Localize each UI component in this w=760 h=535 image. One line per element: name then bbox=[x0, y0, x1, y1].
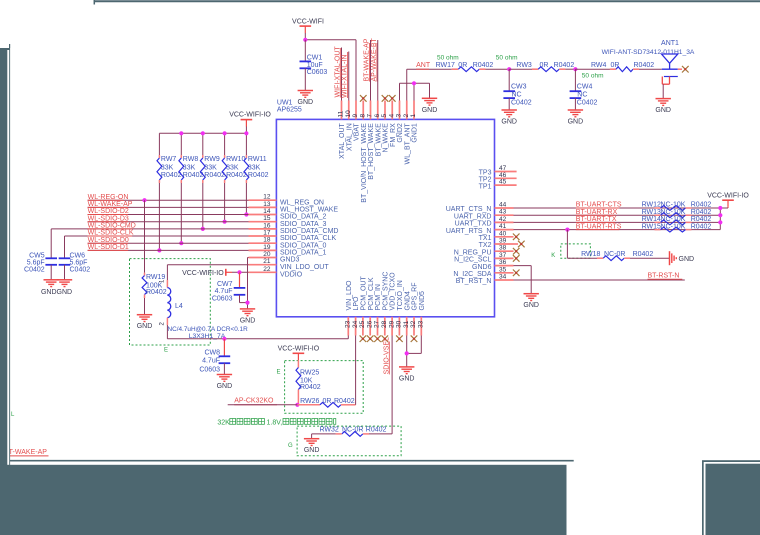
svg-text:GND1: GND1 bbox=[412, 123, 419, 143]
pin 10 XTAL_IN bbox=[345, 101, 353, 152]
svg-text:GNDGND: GNDGND bbox=[41, 289, 72, 296]
svg-text:RW25: RW25 bbox=[300, 369, 319, 376]
capacitor CW4 bbox=[570, 69, 598, 110]
ground RW32 bbox=[304, 439, 320, 455]
svg-text:0R: 0R bbox=[611, 62, 620, 69]
resistor RW4 bbox=[575, 62, 654, 72]
svg-text:RW26: RW26 bbox=[300, 398, 319, 405]
pin 36 GND6 bbox=[472, 259, 513, 271]
resistor RW10 33K pull-up bbox=[222, 155, 247, 224]
pin 9 VBAT bbox=[352, 101, 360, 141]
svg-text:13: 13 bbox=[263, 201, 271, 208]
label 50 ohm b bbox=[496, 54, 518, 61]
svg-text:N_I2C_SDA: N_I2C_SDA bbox=[453, 271, 491, 278]
keepout box E bbox=[130, 259, 211, 354]
svg-text:PCM_CLK: PCM_CLK bbox=[368, 277, 375, 310]
svg-text:50 ohm: 50 ohm bbox=[582, 72, 604, 79]
wire GND1 pin1 bbox=[413, 83, 415, 100]
svg-text:VCC-WIFI-IO: VCC-WIFI-IO bbox=[707, 193, 749, 200]
junction RW25/RW26 bbox=[295, 403, 299, 407]
svg-text:9: 9 bbox=[352, 114, 359, 118]
svg-text:4.7uF: 4.7uF bbox=[215, 288, 233, 295]
junction RTS branch bbox=[565, 228, 569, 232]
IC reference designator UW1 bbox=[277, 100, 293, 107]
antenna ANT1 symbol bbox=[662, 54, 678, 69]
svg-text:WL_BT_ANT: WL_BT_ANT bbox=[404, 122, 411, 164]
capacitor CW3 bbox=[503, 69, 531, 110]
svg-text:5.6pF: 5.6pF bbox=[27, 259, 45, 266]
svg-text:RW10: RW10 bbox=[226, 156, 245, 163]
svg-text:BT_VIO/N_HOST_WAKE: BT_VIO/N_HOST_WAKE bbox=[361, 123, 368, 203]
resistor RW8 33K pull-up bbox=[179, 155, 204, 245]
capacitor CW6 bbox=[59, 236, 91, 280]
svg-text:PCM_IN: PCM_IN bbox=[375, 284, 382, 310]
pin 28 PCM_SYNC bbox=[381, 272, 389, 342]
wire net WL-SDIO-CMD bbox=[51, 223, 248, 230]
wire VDDIO bbox=[232, 271, 249, 273]
pin 38 N_REG_PU bbox=[454, 245, 520, 257]
label GNDGND bbox=[41, 289, 72, 296]
svg-text:R0402: R0402 bbox=[633, 251, 654, 258]
pin 27 PCM_IN bbox=[374, 284, 382, 342]
svg-text:43: 43 bbox=[499, 209, 507, 216]
ground RW18 sideways bbox=[670, 251, 695, 265]
wire net WL-SDIO-D1 bbox=[88, 244, 249, 251]
svg-text:SDIO_DATA_CLK: SDIO_DATA_CLK bbox=[280, 235, 336, 242]
svg-text:L4: L4 bbox=[175, 303, 183, 310]
junction bus RW9 bbox=[201, 131, 205, 135]
svg-text:SDIO_DATA_0: SDIO_DATA_0 bbox=[280, 242, 327, 249]
keepout box G bbox=[288, 426, 401, 456]
svg-text:C0402: C0402 bbox=[511, 100, 532, 107]
pin 21 VIN_LDO_OUT bbox=[249, 258, 330, 271]
wire net WL-SDIO-D2 bbox=[88, 208, 249, 215]
svg-text:33K: 33K bbox=[248, 165, 261, 172]
antenna ANT1 value bbox=[602, 49, 695, 56]
svg-text:UART_RTS_N: UART_RTS_N bbox=[446, 228, 492, 235]
svg-text:R0402: R0402 bbox=[300, 384, 321, 391]
svg-text:N_I2C_SCL: N_I2C_SCL bbox=[454, 257, 491, 264]
svg-text:1: 1 bbox=[410, 114, 417, 118]
wire WL_BT_ANT pin2 bbox=[407, 69, 452, 100]
wire net WL-SDIO-CLK bbox=[65, 230, 249, 237]
net label AP-WAKE-BT bbox=[371, 37, 378, 81]
wire RW17 to node bbox=[486, 68, 510, 70]
ground ANT1 bbox=[655, 99, 671, 115]
pin 2 WL_BT_ANT bbox=[403, 101, 411, 165]
wire net WL-WAKE-AP bbox=[88, 201, 249, 208]
svg-text:R0402: R0402 bbox=[226, 172, 247, 179]
pin 25 PCM_OUT bbox=[359, 276, 367, 342]
svg-text:GND6: GND6 bbox=[472, 264, 492, 271]
svg-text:33: 33 bbox=[418, 320, 425, 328]
svg-text:39: 39 bbox=[499, 238, 507, 245]
svg-text:BT_HOST_WAKE: BT_HOST_WAKE bbox=[368, 123, 375, 180]
svg-text:VIN_LDO_OUT: VIN_LDO_OUT bbox=[280, 264, 329, 271]
svg-text:GND: GND bbox=[568, 119, 584, 126]
svg-text:RW18: RW18 bbox=[581, 251, 600, 258]
svg-text:R0402: R0402 bbox=[554, 62, 575, 69]
junction GND4/5 bbox=[405, 351, 409, 355]
label 50 ohm a bbox=[437, 54, 459, 61]
capacitor CW5 bbox=[24, 229, 57, 280]
svg-text:C0402: C0402 bbox=[24, 266, 45, 273]
svg-text:28: 28 bbox=[381, 320, 388, 328]
pin 46 TP2 bbox=[479, 172, 517, 184]
pin 42 UART_TXD bbox=[455, 216, 514, 228]
wire VCC-WIFI to VBAT bbox=[305, 33, 356, 40]
wire AP-CK32KO bbox=[228, 404, 298, 406]
svg-text:TX1: TX1 bbox=[479, 235, 492, 242]
svg-text:R0402: R0402 bbox=[691, 216, 712, 223]
resistor RW7 33K pull-up bbox=[157, 155, 182, 252]
svg-text:C0402: C0402 bbox=[70, 266, 91, 273]
wire pullup bus bbox=[159, 127, 246, 156]
inductor L4 value bbox=[168, 326, 249, 333]
svg-text:LPO: LPO bbox=[353, 296, 360, 311]
wire VIN_LDO_OUT row bbox=[167, 264, 248, 266]
wire RW32 gnd bbox=[311, 434, 313, 439]
svg-text:WL_REG_ON: WL_REG_ON bbox=[280, 199, 324, 206]
svg-text:CW1: CW1 bbox=[307, 55, 323, 62]
svg-text:20: 20 bbox=[263, 251, 271, 258]
note 32K voltage warning bbox=[217, 419, 230, 426]
svg-text:C0603: C0603 bbox=[212, 295, 233, 302]
svg-text:35: 35 bbox=[499, 266, 507, 273]
svg-text:TX2: TX2 bbox=[479, 242, 492, 249]
wire net WL-REG-ON bbox=[88, 194, 249, 201]
pin 26 PCM_CLK bbox=[366, 277, 374, 342]
svg-text:50 ohm: 50 ohm bbox=[437, 54, 459, 61]
power flag VCC-WIFI-IO rw25 bbox=[278, 346, 320, 361]
svg-text:33K: 33K bbox=[183, 165, 196, 172]
wire antenna stub bbox=[678, 68, 682, 70]
no-connect antenna bbox=[682, 66, 689, 73]
power flag VCC-WIFI-IO vddio bbox=[182, 269, 232, 277]
svg-text:GND: GND bbox=[655, 107, 671, 114]
resistor RW19 100K bbox=[142, 200, 167, 315]
svg-text:RW8: RW8 bbox=[183, 156, 199, 163]
svg-text:UART_TXD: UART_TXD bbox=[455, 221, 492, 228]
pin 6 BT_WAKE bbox=[374, 101, 382, 157]
svg-text:R0402: R0402 bbox=[204, 172, 225, 179]
svg-text:BT_WAKE: BT_WAKE bbox=[375, 123, 382, 157]
svg-text:40: 40 bbox=[499, 230, 507, 237]
svg-text:C0603: C0603 bbox=[307, 69, 328, 76]
junction CW7 gnd bbox=[245, 301, 249, 305]
svg-text:E: E bbox=[277, 369, 281, 375]
svg-text:GND: GND bbox=[298, 99, 314, 106]
svg-text:VCC-WIFI-IO: VCC-WIFI-IO bbox=[229, 112, 271, 119]
wire LPO riser bbox=[355, 336, 357, 405]
svg-text:R0402: R0402 bbox=[691, 223, 712, 230]
pin 24 LPO bbox=[352, 296, 360, 336]
svg-text:18: 18 bbox=[263, 237, 271, 244]
pin 11 XTAL_OUT bbox=[338, 101, 346, 159]
pin 3 GND2 bbox=[396, 101, 404, 143]
svg-text:CW6: CW6 bbox=[70, 252, 86, 259]
pin 31 GND4 bbox=[403, 291, 411, 336]
svg-text:K: K bbox=[551, 253, 555, 259]
svg-text:TP1: TP1 bbox=[479, 183, 492, 190]
svg-text:15: 15 bbox=[263, 215, 271, 222]
svg-text:5.6pF: 5.6pF bbox=[70, 259, 88, 266]
svg-text:CW3: CW3 bbox=[511, 84, 527, 91]
ground RW19 bbox=[137, 315, 153, 331]
net label BT-RST-N bbox=[648, 273, 683, 280]
resistor RW26 0R bbox=[297, 398, 355, 407]
svg-text:37: 37 bbox=[499, 252, 507, 259]
resistor RW18 NC-0R bbox=[567, 230, 669, 261]
ground pins 31/33 bbox=[399, 367, 415, 383]
resistor RW11 33K pull-up bbox=[244, 155, 269, 217]
svg-text:VCC-WIFI-IO: VCC-WIFI-IO bbox=[182, 270, 224, 277]
power flag VCC-WIFI-IO bank bbox=[229, 112, 271, 127]
svg-text:GND: GND bbox=[422, 107, 438, 114]
junction GND1/GND2 bbox=[412, 81, 416, 85]
pin 22 VDDIO bbox=[249, 266, 303, 279]
svg-text:TCXO_IN: TCXO_IN bbox=[397, 280, 404, 310]
pin 17 SDIO_DATA_CLK bbox=[249, 230, 337, 243]
wire AP-WAKE-BT bbox=[377, 40, 379, 101]
pin 45 TP1 bbox=[479, 179, 517, 191]
svg-text:10: 10 bbox=[345, 110, 352, 118]
svg-text:21: 21 bbox=[263, 258, 271, 265]
svg-text:3: 3 bbox=[396, 114, 403, 118]
svg-text:33K: 33K bbox=[161, 165, 174, 172]
svg-text:PCM_SYNC: PCM_SYNC bbox=[382, 272, 389, 311]
pin 8 BT_VIO/N_HOST_WAKE bbox=[359, 95, 367, 203]
wire VBAT pin9 riser bbox=[355, 40, 357, 101]
svg-text:RW17: RW17 bbox=[436, 62, 455, 69]
IC value AP6255 bbox=[277, 107, 302, 114]
svg-text:32: 32 bbox=[410, 320, 417, 328]
keepout box E2 bbox=[277, 361, 364, 414]
junction uart rail 44 bbox=[718, 206, 722, 210]
junction uart rail 42 bbox=[718, 220, 722, 224]
svg-text:CW7: CW7 bbox=[217, 281, 233, 288]
svg-text:17: 17 bbox=[263, 230, 271, 237]
net label WIFI-XTAL-IN bbox=[342, 52, 349, 98]
svg-text:BT-WAKE-AP: BT-WAKE-AP bbox=[4, 449, 47, 456]
pin 37 N_I2C_SCL bbox=[454, 252, 519, 264]
pin 13 WL_HOST_WAKE bbox=[249, 201, 339, 214]
pin 20 GND3 bbox=[249, 251, 300, 264]
svg-text:RW3: RW3 bbox=[516, 62, 532, 69]
junction RW19 on WL-REG-ON bbox=[142, 198, 146, 202]
wire SDIO-VSEL bbox=[391, 336, 393, 434]
junction bus RW10 bbox=[223, 131, 227, 135]
ground CW3 bbox=[501, 110, 517, 126]
svg-text:ANT: ANT bbox=[416, 62, 431, 69]
wire net WL-SDIO-D3 bbox=[88, 215, 249, 222]
ground GND3/CW7 bbox=[240, 309, 256, 325]
resistor RW3 bbox=[509, 62, 574, 72]
net label SDIO-VSEL bbox=[383, 337, 390, 374]
svg-text:VDDIO: VDDIO bbox=[280, 272, 303, 279]
antenna ANT1 label bbox=[661, 40, 679, 47]
svg-text:R0402: R0402 bbox=[366, 427, 387, 434]
svg-text:R0402: R0402 bbox=[146, 289, 167, 296]
pin 16 SDIO_DATA_CMD bbox=[249, 222, 339, 235]
svg-text:N_REG_PU: N_REG_PU bbox=[454, 249, 492, 256]
note cjk part2 bbox=[283, 419, 336, 425]
wire GND3 drop bbox=[248, 258, 249, 309]
pin 44 UART_CTS_N bbox=[446, 202, 514, 214]
svg-text:VIN_LDO: VIN_LDO bbox=[346, 280, 353, 311]
svg-text:42: 42 bbox=[499, 216, 507, 223]
wire GND4/GND5 bbox=[407, 336, 422, 367]
svg-text:WIFI-ANT-SD73412-011H1_3A: WIFI-ANT-SD73412-011H1_3A bbox=[602, 49, 695, 56]
svg-text:SDIO_DATA_1: SDIO_DATA_1 bbox=[280, 250, 327, 257]
svg-text:0R: 0R bbox=[540, 62, 549, 69]
resistor RW14 NC-10K net BT-UART-TX bbox=[514, 216, 721, 225]
pin 14 SDIO_DATA_2 bbox=[249, 208, 327, 221]
svg-text:SDIO_DATA_3: SDIO_DATA_3 bbox=[280, 221, 327, 228]
svg-text:31: 31 bbox=[403, 320, 410, 328]
svg-text:C0603: C0603 bbox=[199, 366, 220, 373]
junction VDDIO bbox=[237, 270, 241, 274]
svg-text:SDIO_DATA_CMD: SDIO_DATA_CMD bbox=[280, 228, 338, 235]
junction VCC-WIFI node bbox=[303, 38, 307, 42]
svg-text:R0402: R0402 bbox=[473, 62, 494, 69]
resistor RW17 bbox=[436, 62, 494, 72]
resistor RW12 NC-10K net BT-UART-CTS bbox=[514, 202, 721, 211]
svg-text:12: 12 bbox=[263, 194, 271, 201]
svg-text:GND2: GND2 bbox=[397, 123, 404, 143]
svg-text:4: 4 bbox=[388, 114, 395, 118]
resistor RW15 NC-10K net BT-UART-RTS bbox=[514, 223, 721, 232]
wire WIFI-XTAL-OUT bbox=[341, 48, 343, 101]
power flag VCC-WIFI bbox=[292, 19, 324, 34]
capacitor CW1 bbox=[300, 40, 328, 91]
svg-text:24: 24 bbox=[352, 320, 359, 328]
svg-text:36: 36 bbox=[499, 259, 507, 266]
svg-text:N_WAKE: N_WAKE bbox=[383, 123, 390, 153]
svg-text:38: 38 bbox=[499, 245, 507, 252]
pin 5 N_WAKE bbox=[381, 95, 389, 152]
svg-text:2: 2 bbox=[403, 114, 410, 118]
resistor RW13 NC-10K net BT-UART-RX bbox=[514, 209, 721, 218]
junction CW4 node bbox=[573, 67, 577, 71]
svg-text:CW4: CW4 bbox=[577, 84, 593, 91]
svg-text:XTAL_OUT: XTAL_OUT bbox=[339, 122, 346, 158]
svg-text:25: 25 bbox=[359, 320, 366, 328]
capacitor CW8 bbox=[199, 339, 230, 375]
wire WIFI-XTAL-IN bbox=[348, 52, 350, 101]
pin 12 WL_REG_ON bbox=[249, 194, 324, 207]
pin 32 GPS_RF bbox=[410, 282, 418, 342]
svg-text:GPS_RF: GPS_RF bbox=[412, 282, 419, 310]
note 1.8V bbox=[267, 419, 283, 426]
svg-text:PCM_OUT: PCM_OUT bbox=[361, 276, 368, 311]
svg-text:XTAL_IN: XTAL_IN bbox=[346, 123, 353, 151]
net label ANT bbox=[416, 62, 431, 69]
power flag VCC-WIFI-IO uart bbox=[707, 193, 749, 207]
svg-text:CW5: CW5 bbox=[29, 252, 45, 259]
capacitor CW7 bbox=[212, 272, 248, 302]
svg-text:RW7: RW7 bbox=[161, 156, 177, 163]
ground pins 1-3 bbox=[422, 98, 438, 114]
pin 4 FM_RX bbox=[388, 95, 396, 147]
wire net WL-SDIO-D0 bbox=[88, 237, 249, 244]
svg-text:GND: GND bbox=[399, 375, 415, 382]
svg-text:GND: GND bbox=[137, 323, 153, 330]
svg-text:RW4: RW4 bbox=[591, 62, 607, 69]
pin 34 BT_RST_N bbox=[456, 274, 514, 286]
svg-text:10uF: 10uF bbox=[307, 62, 323, 69]
svg-text:50 ohm: 50 ohm bbox=[496, 54, 518, 61]
svg-text:41: 41 bbox=[499, 223, 507, 230]
svg-text:NC: NC bbox=[577, 91, 587, 98]
svg-text:GND: GND bbox=[240, 317, 256, 324]
svg-text:UART_RXD: UART_RXD bbox=[454, 213, 492, 220]
svg-text:GND3: GND3 bbox=[280, 257, 300, 264]
svg-text:C0402: C0402 bbox=[577, 100, 598, 107]
svg-text:7: 7 bbox=[367, 114, 374, 118]
svg-text:6: 6 bbox=[374, 114, 381, 118]
svg-text:R0402: R0402 bbox=[691, 202, 712, 209]
ground CW6 bbox=[57, 280, 72, 287]
junction CW8 bbox=[222, 337, 226, 341]
note cjk part1 bbox=[230, 419, 265, 425]
svg-text:UART_CTS_N: UART_CTS_N bbox=[446, 206, 492, 213]
svg-text:R0402: R0402 bbox=[634, 62, 655, 69]
svg-text:VBAT: VBAT bbox=[354, 122, 361, 140]
svg-text:AP-CK32KO: AP-CK32KO bbox=[234, 397, 274, 404]
wire RW4 to antenna bbox=[639, 68, 662, 70]
svg-text:UW1: UW1 bbox=[277, 100, 293, 107]
pin 18 SDIO_DATA_0 bbox=[249, 237, 327, 250]
svg-text:E: E bbox=[164, 348, 168, 354]
pin 47 TP3 bbox=[479, 165, 517, 177]
pin 15 SDIO_DATA_3 bbox=[249, 215, 327, 228]
svg-text:1.8V,: 1.8V, bbox=[267, 419, 283, 426]
net label AP-CK32KO bbox=[234, 397, 277, 405]
net label BT-WAKE-AP bbox=[364, 38, 371, 81]
svg-text:RW9: RW9 bbox=[204, 156, 220, 163]
svg-text:CW8: CW8 bbox=[204, 349, 220, 356]
svg-text:VCC-WIFI-IO: VCC-WIFI-IO bbox=[278, 346, 320, 353]
svg-text:GND: GND bbox=[523, 302, 539, 309]
pin 29 VDD_TCXO bbox=[388, 272, 396, 336]
svg-text:14: 14 bbox=[263, 208, 271, 215]
resistor RW32 NC-0R bbox=[312, 427, 393, 437]
svg-text:R0402: R0402 bbox=[691, 209, 712, 216]
net label WIFI-XTAL-OUT bbox=[334, 46, 341, 98]
svg-text:22: 22 bbox=[263, 266, 271, 273]
svg-text:BT-RST-N: BT-RST-N bbox=[648, 273, 680, 280]
svg-text:16: 16 bbox=[263, 222, 271, 229]
wire BT-RST-N bbox=[514, 279, 685, 281]
antenna ground stub bbox=[662, 77, 678, 99]
svg-text:WL_HOST_WAKE: WL_HOST_WAKE bbox=[280, 207, 338, 214]
svg-text:R0402: R0402 bbox=[334, 398, 355, 405]
wire VIN_LDO rail bbox=[167, 336, 348, 339]
svg-text:SDIO_DATA_2: SDIO_DATA_2 bbox=[280, 214, 327, 221]
pin 35 N_I2C_SDA bbox=[453, 266, 519, 278]
net label BT-WAKE-AP bottom bbox=[4, 449, 49, 456]
svg-text:44: 44 bbox=[499, 202, 507, 209]
junction bus RW11 bbox=[244, 131, 248, 135]
svg-text:FM_RX: FM_RX bbox=[390, 123, 397, 147]
pin 40 TX1 bbox=[479, 230, 520, 242]
junction uart rail 43 bbox=[718, 213, 722, 217]
keepout box K bbox=[551, 244, 590, 259]
svg-text:RW32: RW32 bbox=[320, 427, 339, 434]
svg-text:R0402: R0402 bbox=[248, 172, 269, 179]
ground CW1 bbox=[298, 91, 314, 107]
